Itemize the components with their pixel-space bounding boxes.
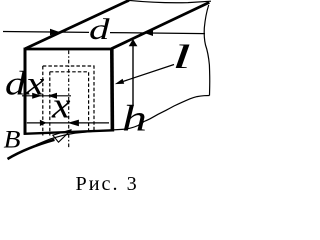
svg-text:l: l — [172, 39, 191, 76]
svg-text:dx: dx — [5, 66, 45, 103]
svg-text:x: x — [51, 85, 71, 126]
svg-text:d: d — [89, 13, 111, 46]
svg-text:h: h — [122, 99, 147, 140]
svg-text:B: B — [4, 126, 21, 153]
svg-text:Рис. 3: Рис. 3 — [76, 173, 139, 193]
